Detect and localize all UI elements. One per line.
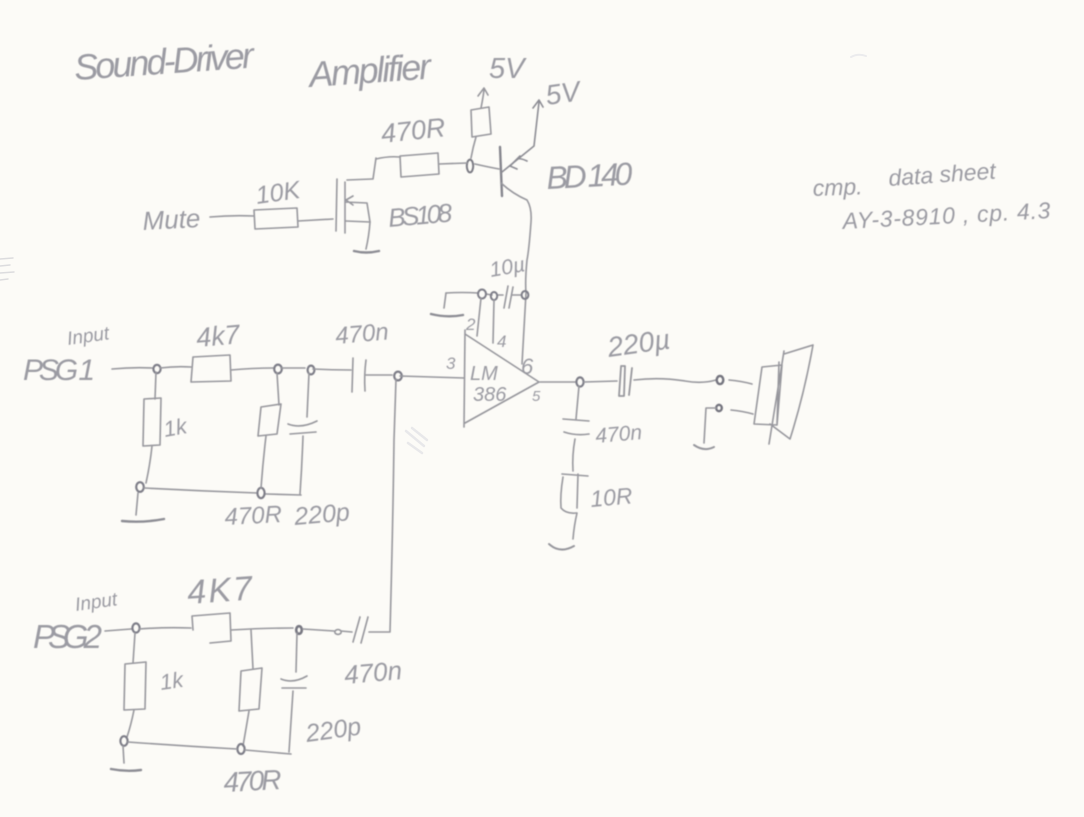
resistor 4k7 (PSG1) <box>191 355 231 382</box>
capacitor 10u plates <box>504 286 513 308</box>
label 470n (PSG2) <box>343 655 403 690</box>
node pin6 junction <box>522 291 529 299</box>
pin label 5 <box>532 388 541 405</box>
svg-text:cmp.: cmp. <box>812 173 863 201</box>
node 220p junction (PSG1) <box>308 366 315 375</box>
svg-text:BS108: BS108 <box>387 197 454 233</box>
node ground junction (PSG1) <box>136 482 144 492</box>
wire node to node <box>281 367 305 369</box>
wire 220p top lead (PSG2) <box>296 633 297 672</box>
svg-text:LM: LM <box>470 363 498 385</box>
label Input (PSG2) <box>74 589 119 616</box>
svg-text:BD 140: BD 140 <box>545 156 633 196</box>
wire pin5 output <box>540 381 576 383</box>
label LM 386 <box>470 363 507 406</box>
wire 470R bottom lead (PSG1) <box>261 436 266 488</box>
node output junction <box>576 377 583 386</box>
svg-text:1k: 1k <box>158 667 185 695</box>
wire pin4 <box>493 300 494 343</box>
node speaker - junction <box>716 405 722 411</box>
wire 4k7 to node <box>231 368 273 370</box>
wire 1K to node (PSG2) <box>127 710 134 737</box>
wire ground lead (PSG2) <box>123 746 124 763</box>
label Mute <box>142 203 201 236</box>
resistor 10K <box>254 208 298 229</box>
wire BD140 emitter to 5V <box>502 100 543 172</box>
resistor 470R (PSG2) <box>239 668 262 711</box>
wire speaker - to ground <box>704 408 716 443</box>
wire 220p bottom lead (PSG2) <box>289 691 293 752</box>
capacitor 470n plates (PSG1) <box>352 358 366 392</box>
transistor Q BS108 <box>336 179 370 233</box>
capacitor 470n Zobel plates <box>563 419 589 435</box>
wire bottom rail (PSG2) <box>128 742 291 754</box>
svg-text:5: 5 <box>532 388 541 405</box>
label 470n (Zobel) <box>594 421 643 448</box>
svg-text:470n: 470n <box>343 655 403 690</box>
wire 470n to node <box>366 374 392 376</box>
wire ground lead (PSG1) <box>136 493 138 515</box>
label PSG2 <box>33 618 102 655</box>
label 1k (PSG2) <box>158 667 185 695</box>
node 470R bottom junction (PSG2) <box>237 744 244 754</box>
wire Mute to 10K <box>210 216 254 217</box>
power 5V label (BD140) <box>544 75 585 111</box>
wire node to 470n <box>313 369 351 370</box>
wire dash to speaker - <box>731 410 753 414</box>
pin label 6 <box>521 354 534 379</box>
label 470n (PSG1) <box>334 318 390 350</box>
resistor 470R pull-up (vertical) <box>471 107 491 158</box>
wire 470n up to mix node <box>369 379 396 632</box>
node 470R junction (PSG1) <box>274 365 282 374</box>
svg-text:2: 2 <box>465 315 476 334</box>
label 10K <box>254 176 303 210</box>
ground (BS108 source) <box>354 251 379 253</box>
svg-text:470n: 470n <box>594 421 643 448</box>
label 10u <box>488 253 527 282</box>
svg-text:470R: 470R <box>224 501 283 531</box>
resistor 1K (PSG1) <box>143 398 161 446</box>
wire BS108 drain up <box>347 158 376 180</box>
label 470R (top resistor) <box>379 112 446 149</box>
label 470R (PSG1) <box>224 501 283 531</box>
wire BD140 collector down to pin6 <box>501 183 531 364</box>
node speaker + junction <box>717 376 724 384</box>
svg-text:470n: 470n <box>334 318 390 350</box>
svg-text:386: 386 <box>473 384 507 406</box>
wire node to 1K <box>155 372 156 399</box>
capacitor 470n plates (PSG2) <box>353 617 368 643</box>
svg-text:5V: 5V <box>489 53 527 85</box>
op-amp LM386 <box>464 330 539 427</box>
capacitor 220p plates (PSG1) <box>288 421 317 434</box>
ground (PSG2) <box>111 769 141 771</box>
wire to 4k7 <box>160 367 191 368</box>
node PSG1 input junction <box>153 365 160 373</box>
resistor 4K7 (PSG2) <box>192 613 231 643</box>
wire output to 220u <box>584 381 617 382</box>
wire 1K to node <box>146 446 152 483</box>
wire node to 1K (PSG2) <box>133 633 135 663</box>
svg-text:PSG 1: PSG 1 <box>23 354 95 387</box>
svg-text:3: 3 <box>446 354 456 373</box>
resistor 470R (PSG1) <box>258 404 281 436</box>
svg-text:4K7: 4K7 <box>186 569 255 612</box>
title Sound-Driver Amplifier <box>73 34 435 95</box>
wire bottom rail (PSG1) <box>144 488 301 495</box>
label 4k7 (PSG1) <box>195 319 242 353</box>
node ground junction (PSG2) <box>120 736 127 746</box>
label BS108 <box>387 197 454 233</box>
speaker <box>754 345 813 444</box>
label 220u <box>605 323 673 363</box>
node small loop (PSG2 cap) <box>335 630 341 635</box>
svg-text:470R: 470R <box>223 764 283 798</box>
wire rail to ground <box>444 293 446 308</box>
svg-text:Mute: Mute <box>142 203 201 236</box>
wire 10R to ground <box>573 513 577 539</box>
wire 220u to speaker node <box>634 379 716 383</box>
wire pin2 <box>477 298 481 336</box>
label 220p (PSG2) <box>303 712 363 748</box>
ground (rail) <box>431 314 463 316</box>
ground (speaker) <box>694 445 714 449</box>
resistor 1K (PSG2) <box>124 662 146 710</box>
label 4K7 (PSG2) <box>186 569 255 612</box>
label BD140 <box>545 156 633 196</box>
svg-text:4: 4 <box>497 332 506 351</box>
label 10R <box>589 482 633 512</box>
wire 4K7 to node (PSG2) <box>231 628 293 630</box>
node pin2 junction <box>478 290 486 299</box>
wire dash to speaker + <box>729 380 752 384</box>
wire supply rail (pins 2,4 to cap) <box>446 293 521 296</box>
svg-text:PSG 2: PSG 2 <box>33 618 102 655</box>
arrow BD140 emitter (PNP) <box>510 156 527 169</box>
wire 470R bottom lead (PSG2) <box>243 711 249 746</box>
wire node to 470n (PSG2) <box>303 629 334 631</box>
label 1K (PSG1) <box>162 413 190 442</box>
wire loop to cap <box>341 631 352 632</box>
capacitor 220u plates <box>619 366 632 396</box>
node 220p junction (PSG2) <box>296 626 302 634</box>
pin label 2 <box>465 315 476 334</box>
wire PSG2 input <box>105 629 131 631</box>
label PSG1 <box>23 354 95 387</box>
wire 470n to 10R <box>573 439 575 471</box>
wire 220p top lead (PSG1) <box>307 373 309 417</box>
transistor Q BD140 <box>500 147 502 196</box>
label 470R (PSG2) <box>223 764 283 798</box>
wire to 4K7 (PSG2) <box>139 628 191 629</box>
wire BS108 source to ground <box>366 222 370 249</box>
pin label 4 <box>497 332 506 351</box>
wire PSG1 input <box>112 368 152 369</box>
label 220p (PSG1) <box>292 498 351 531</box>
ground (Zobel) <box>549 544 574 550</box>
svg-text:5V: 5V <box>544 75 585 111</box>
resistor 470R (horizontal, drain to base) <box>400 153 439 177</box>
wire 470R top lead (PSG2) <box>251 630 253 669</box>
svg-text:Amplifier: Amplifier <box>306 45 435 95</box>
svg-text:4k7: 4k7 <box>195 319 242 353</box>
wire 470R leads <box>376 157 499 169</box>
wire Zobel lead <box>576 386 579 419</box>
capacitor 220p plates (PSG2) <box>281 676 307 688</box>
ground (PSG1) <box>122 519 164 522</box>
wire 470R top lead (PSG1) <box>277 373 279 405</box>
note cmp. datasheet <box>812 157 1051 234</box>
node PSG mix junction <box>394 372 402 381</box>
wire 10K to gate <box>298 219 333 221</box>
label Input (PSG1) <box>66 323 111 350</box>
power 5V label (pull-up) <box>489 53 527 85</box>
node 470R bottom junction (PSG1) <box>257 488 264 498</box>
wire 220p bottom lead (PSG1) <box>300 436 303 494</box>
wire node to pin3 <box>400 376 464 378</box>
node base junction <box>467 160 473 173</box>
svg-text:10R: 10R <box>589 482 633 512</box>
node pin4 junction <box>491 292 497 300</box>
resistor 10R <box>561 474 588 513</box>
node PSG2 input junction <box>132 623 139 632</box>
power 5V arrow (pull-up) <box>478 88 488 108</box>
pin label 3 <box>446 354 456 373</box>
svg-text:220p: 220p <box>292 498 351 531</box>
